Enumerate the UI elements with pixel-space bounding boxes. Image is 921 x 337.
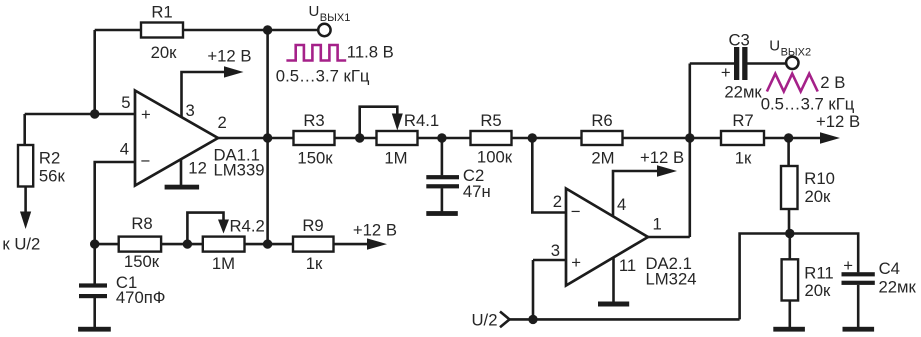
svg-text:47н: 47н	[463, 182, 491, 201]
power +12 В arrow (DA1.1 pin 3)	[207, 46, 251, 77]
wire C1 top lead	[93, 244, 96, 284]
svg-text:11: 11	[619, 256, 636, 275]
ground C2	[426, 211, 458, 216]
ground DA2.1	[598, 302, 629, 307]
svg-text:22мк: 22мк	[879, 277, 917, 296]
potentiometer R4.1	[360, 107, 439, 168]
power +12 В arrow (R9)	[353, 221, 397, 250]
svg-text:R9: R9	[302, 216, 323, 235]
ground C1	[78, 327, 111, 332]
svg-text:U/2: U/2	[472, 311, 498, 330]
resistor R3	[294, 111, 335, 168]
resistor R1	[141, 3, 183, 63]
wire R1 left drop to noninverting input	[93, 30, 96, 114]
svg-text:56к: 56к	[39, 167, 66, 186]
resistor R11	[782, 259, 834, 300]
wire C3 right lead to terminal	[748, 62, 787, 65]
svg-text:5: 5	[121, 93, 130, 112]
wire R6 to R7	[623, 137, 722, 140]
svg-text:+: +	[721, 63, 731, 82]
wire junction to U/2 rail	[740, 234, 790, 320]
capacitor C2	[426, 166, 490, 201]
node DA2.1 inverting input junction	[528, 133, 537, 142]
op-amp DA1.1	[135, 91, 265, 186]
wire pin 3 to +12 V	[182, 72, 226, 118]
wire C3 left lead	[690, 62, 734, 65]
waveform triangle wave 2 В	[761, 73, 855, 114]
node R1 output junction	[263, 25, 272, 34]
wire R7 to +12 V	[764, 137, 821, 140]
node output/main rail junction	[263, 133, 272, 142]
svg-text:0.5…3.7 кГц: 0.5…3.7 кГц	[761, 95, 855, 114]
wire U/2 rail	[510, 318, 740, 321]
svg-text:470пФ: 470пФ	[116, 288, 166, 307]
svg-text:100к: 100к	[477, 148, 513, 167]
svg-text:20к: 20к	[151, 43, 178, 62]
resistor R5	[471, 111, 513, 167]
wire lower rail R8 row	[95, 243, 119, 246]
svg-text:R2: R2	[39, 149, 60, 168]
svg-text:R5: R5	[480, 111, 501, 130]
terminal Uвых1	[309, 3, 351, 36]
ground C4	[843, 327, 875, 332]
svg-text:1к: 1к	[306, 254, 323, 273]
svg-text:4: 4	[617, 195, 626, 214]
svg-text:R11: R11	[804, 264, 833, 283]
wire top feedback rail	[95, 29, 318, 32]
svg-text:4: 4	[120, 140, 129, 159]
wire DA2.1 inverting input	[532, 138, 566, 213]
wire noninverting input	[25, 113, 135, 116]
wire R10 top lead	[787, 138, 790, 166]
waveform square wave 11.8 В	[276, 43, 394, 86]
potentiometer R4.2	[187, 213, 264, 273]
wire output vertical bus x=689.8	[688, 64, 691, 238]
svg-text:R8: R8	[131, 214, 152, 233]
wire R4.1 to R5	[418, 137, 471, 140]
svg-text:к U/2: к U/2	[2, 235, 40, 254]
svg-text:+12 В: +12 В	[353, 221, 397, 240]
svg-text:R4.1: R4.1	[404, 111, 439, 130]
svg-text:3: 3	[551, 241, 560, 260]
svg-text:−: −	[141, 151, 151, 170]
svg-text:R7: R7	[732, 111, 753, 130]
wire DA2.1 output to junction bus	[648, 236, 690, 239]
wire C2 top lead	[441, 138, 444, 175]
svg-text:+: +	[843, 256, 853, 275]
svg-text:12: 12	[188, 159, 207, 178]
wire C2 bottom lead	[441, 188, 444, 211]
resistor R2	[18, 145, 65, 187]
svg-text:11.8 В: 11.8 В	[347, 43, 394, 62]
wire R9 to +12 V	[334, 243, 369, 246]
resistor R7	[721, 111, 764, 168]
svg-text:U: U	[769, 37, 780, 54]
wire R10 bottom lead	[788, 209, 791, 234]
svg-text:20к: 20к	[805, 281, 832, 300]
terminal Uвых2	[769, 37, 811, 69]
wire output vertical bus x=267.6	[266, 30, 269, 244]
svg-text:+12 В: +12 В	[640, 148, 684, 167]
node U/2 / DA2.1 pin 3 junction	[528, 315, 537, 324]
capacitor C4	[842, 256, 917, 296]
wire R8 to R4.2	[161, 243, 203, 246]
wire DA2.1 noninverting input	[533, 259, 566, 262]
svg-text:1М: 1М	[212, 254, 235, 273]
node R8 left / C1 junction	[90, 239, 99, 248]
svg-text:ВЫХ2: ВЫХ2	[781, 47, 812, 59]
node noninverting input junction	[90, 109, 99, 118]
svg-text:0.5…3.7 кГц: 0.5…3.7 кГц	[276, 67, 370, 86]
node DA2.1 output junction	[685, 133, 694, 142]
svg-text:+: +	[141, 105, 151, 124]
capacitor C3	[721, 31, 763, 102]
svg-text:C3: C3	[729, 31, 750, 50]
wire DA1.1 output	[218, 137, 268, 140]
wire C1 bottom lead	[93, 298, 96, 327]
resistor R9	[293, 216, 334, 273]
node vertical bus / lower rail junction	[263, 239, 272, 248]
svg-text:LM339: LM339	[214, 161, 265, 180]
svg-text:R6: R6	[591, 111, 612, 130]
svg-text:22мк: 22мк	[724, 82, 762, 101]
resistor R10	[781, 166, 835, 209]
node C2 junction	[437, 133, 446, 142]
wire R2 to к U/2 arrow	[2, 187, 40, 254]
svg-text:U: U	[309, 3, 320, 20]
wire R2 top lead	[23, 114, 26, 145]
wire noninverting input to U/2 rail	[532, 260, 535, 319]
svg-text:2: 2	[218, 113, 227, 132]
ground DA1.1	[165, 185, 200, 190]
svg-text:C4: C4	[879, 259, 900, 278]
wire R5 to R6	[512, 137, 582, 140]
svg-text:−: −	[571, 202, 581, 221]
wire pin 4 to +12 V	[613, 171, 658, 217]
svg-text:3: 3	[186, 101, 195, 120]
input U/2 chevron	[472, 311, 510, 330]
svg-text:2М: 2М	[591, 149, 614, 168]
power +12 В arrow (R7)	[816, 112, 860, 144]
wire main rail segment to R3	[268, 137, 294, 140]
svg-text:1к: 1к	[735, 149, 752, 168]
svg-text:R10: R10	[804, 169, 835, 188]
capacitor C1	[79, 273, 165, 307]
ground R11	[773, 327, 805, 332]
wire R3 to R4.1	[335, 137, 377, 140]
svg-text:2: 2	[553, 192, 562, 211]
svg-text:R3: R3	[303, 111, 324, 130]
svg-text:20к: 20к	[805, 187, 832, 206]
wire inverting input to lower rail	[95, 162, 135, 244]
wire R4.2 to R9	[245, 243, 294, 246]
resistor R8	[119, 214, 161, 271]
svg-text:150к: 150к	[297, 149, 333, 168]
resistor R6	[582, 111, 623, 168]
node R10 top junction	[784, 133, 793, 142]
svg-text:ВЫХ1: ВЫХ1	[320, 12, 351, 24]
node R10/R11 junction	[785, 229, 794, 238]
power +12 В arrow (DA2.1 pin 4)	[640, 148, 684, 177]
wire junction to C4	[790, 234, 858, 273]
svg-text:+12 В: +12 В	[816, 112, 860, 131]
wire C4 bottom lead	[857, 285, 860, 327]
svg-text:1М: 1М	[384, 149, 407, 168]
wire R11 bottom lead	[788, 301, 791, 328]
wire R11 top lead	[788, 234, 791, 260]
svg-text:LM324: LM324	[646, 270, 697, 289]
svg-text:+: +	[571, 253, 581, 272]
op-amp DA2.1	[566, 189, 697, 289]
svg-text:2 В: 2 В	[820, 73, 845, 92]
svg-text:+12 В: +12 В	[207, 46, 251, 65]
svg-text:1: 1	[653, 215, 662, 234]
node R8/R4.2 junction	[183, 239, 192, 248]
svg-text:150к: 150к	[124, 252, 160, 271]
wire pin 12 to ground	[180, 160, 183, 186]
svg-text:R1: R1	[151, 3, 172, 22]
node R3/R4.1 junction	[355, 133, 364, 142]
wire pin 11 to ground	[612, 258, 615, 302]
svg-text:R4.2: R4.2	[230, 217, 265, 236]
